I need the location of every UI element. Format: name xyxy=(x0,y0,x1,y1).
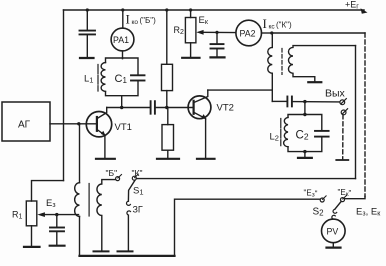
connector hooks S2/PV xyxy=(333,209,337,213)
capacitor C (Ez bypass) xyxy=(56,215,58,227)
wire VT2 collector to output transformer xyxy=(208,89,272,91)
tank circuit L2 C2 loop xyxy=(288,115,322,152)
node junction dot base / divider xyxy=(165,106,168,109)
switch S1 contact "K" xyxy=(132,176,136,180)
ammeter PA2 xyxy=(236,20,262,46)
wire left rail down from top rail xyxy=(63,10,65,181)
wire VT1 collector node xyxy=(107,107,150,109)
svg-text:"К": "К" xyxy=(132,168,143,178)
voltmeter PV xyxy=(322,219,346,243)
capacitor C2 xyxy=(315,130,329,132)
svg-text:C1: C1 xyxy=(115,73,128,85)
capacitor C (supply bypass, top left) xyxy=(86,10,88,30)
wire dashed right drop to S2 Ek contact xyxy=(364,33,366,197)
ground (VT1 emitter) xyxy=(96,158,115,160)
tank circuit L1 C1 loop xyxy=(106,58,139,96)
ground (under tank L2C2) xyxy=(298,157,312,159)
ground (T1 right winding bottom) xyxy=(94,250,109,252)
node junction dot Vyh node xyxy=(303,100,306,103)
svg-text:ЗГ: ЗГ xyxy=(133,205,143,215)
svg-text:кс: кс xyxy=(269,23,276,30)
svg-text:"Ек": "Ек" xyxy=(338,188,352,198)
generator block AG xyxy=(2,102,50,141)
svg-text:Вых: Вых xyxy=(325,88,346,100)
wire top supply rail +Eg xyxy=(64,9,365,11)
svg-text:("Б"): ("Б") xyxy=(140,16,157,25)
svg-text:I: I xyxy=(263,16,267,31)
svg-text:L2: L2 xyxy=(270,132,279,143)
ground (under Ez cap) xyxy=(50,245,65,247)
transformer T2 primary xyxy=(271,33,273,47)
resistor R (divider top) xyxy=(162,64,173,90)
capacitor C (output coupling) xyxy=(272,100,286,102)
node junction dot Ik wire / primary xyxy=(270,31,273,34)
resistor R (divider bottom) xyxy=(162,125,174,151)
svg-text:Ез: Ез xyxy=(46,198,56,209)
transistor VT1 xyxy=(86,112,111,137)
capacitor C (interstage coupling) xyxy=(150,101,152,114)
svg-text:Ез, Ек: Ез, Ек xyxy=(356,207,381,218)
transformer T2 secondary xyxy=(288,46,355,81)
svg-text:VT2: VT2 xyxy=(217,103,234,114)
node junction dot Ez cap xyxy=(55,213,58,216)
wire bottom return loop to Ez contact xyxy=(80,255,175,257)
connector hooks ZG xyxy=(127,201,131,205)
switch S1 lever xyxy=(128,180,135,201)
capacitor C (Ek bypass) xyxy=(216,32,218,43)
node junction dots tank L2C2 xyxy=(303,113,306,116)
potentiometer R1 xyxy=(26,201,37,226)
switch S1 contact "B" xyxy=(116,177,120,181)
svg-text:"Б": "Б" xyxy=(106,168,118,178)
core line of L2 xyxy=(280,119,282,146)
svg-text:R1: R1 xyxy=(12,210,23,221)
svg-text:PV: PV xyxy=(327,226,339,236)
transformer T1 right winding xyxy=(97,180,116,251)
svg-text:РА2: РА2 xyxy=(240,28,256,38)
ammeter PA1 xyxy=(111,28,134,51)
svg-text:S2: S2 xyxy=(313,207,325,218)
svg-text:РА1: РА1 xyxy=(113,35,129,45)
core line of L1 xyxy=(97,65,99,92)
transistor VT2 xyxy=(188,96,211,119)
node junction dot top rail / divider xyxy=(165,8,168,11)
svg-text:"Ез": "Ез" xyxy=(304,188,318,198)
node output terminal Vyh lower xyxy=(341,110,346,115)
node junction dot top rail / PA1 xyxy=(121,8,124,11)
ground (VT2 emitter) xyxy=(197,158,215,160)
ground (under divider) xyxy=(157,158,179,160)
transformer T1 left winding xyxy=(79,124,81,183)
wire secondary top down to K bus xyxy=(355,46,357,179)
svg-text:I: I xyxy=(126,12,130,27)
ground (T2 secondary bottom) xyxy=(308,81,321,83)
node junction dot top rail / R2 xyxy=(189,8,192,11)
ground (under Ek bypass cap) xyxy=(211,56,225,58)
ground (under R1) xyxy=(24,246,40,248)
switch S2 contact "Ez" xyxy=(320,198,324,202)
ground bar (end of dashed wire) xyxy=(336,159,348,161)
wire K bus from S1 to secondary xyxy=(136,178,355,180)
ground (under R2) xyxy=(182,57,199,59)
svg-text:C2: C2 xyxy=(296,130,309,142)
ground (under S1/ZG line) xyxy=(118,250,133,252)
inductor L1 xyxy=(101,63,105,92)
node junction dot base wire / T1 winding xyxy=(77,122,80,125)
potentiometer R2 xyxy=(185,18,196,43)
svg-text:+Ег: +Ег xyxy=(345,0,359,11)
core line of T2 xyxy=(281,49,283,75)
svg-text:ко: ко xyxy=(132,19,139,26)
switch S2 contact "Ek" xyxy=(341,198,345,202)
wiper arrow of R2 (Ek tap) xyxy=(202,31,236,33)
node output terminal Vyh upper xyxy=(340,100,345,105)
core line of T1 xyxy=(88,184,90,217)
svg-text:R2: R2 xyxy=(174,25,185,36)
svg-text:VT1: VT1 xyxy=(115,122,132,133)
wire dashed from lower terminal down xyxy=(342,115,344,159)
inductor L2 xyxy=(284,117,288,146)
ground (under PV) xyxy=(327,247,341,249)
wire Ek line to right edge xyxy=(273,32,365,34)
wire PA2 to primary junction xyxy=(262,32,272,34)
switch S2 lever xyxy=(335,201,341,209)
wire rail corner to R1 top xyxy=(32,181,64,201)
svg-text:S1: S1 xyxy=(133,186,144,197)
wire PA1 to tank top xyxy=(122,57,124,60)
wiper arrow of R1 (Ez tap) xyxy=(44,214,79,216)
node junction dot top rail / bypass cap xyxy=(86,8,89,11)
ground (under top-left capacitor) xyxy=(80,57,94,59)
node junction dot collector / tank xyxy=(120,106,123,109)
svg-text:АГ: АГ xyxy=(18,120,31,131)
node +Eg arrow terminal xyxy=(361,8,368,14)
svg-text:L1: L1 xyxy=(84,74,93,85)
svg-text:Ек: Ек xyxy=(199,15,209,26)
svg-text:("К"): ("К") xyxy=(276,21,292,30)
capacitor C1 xyxy=(131,74,145,76)
node junction dot Ek wire / cap xyxy=(215,31,218,34)
